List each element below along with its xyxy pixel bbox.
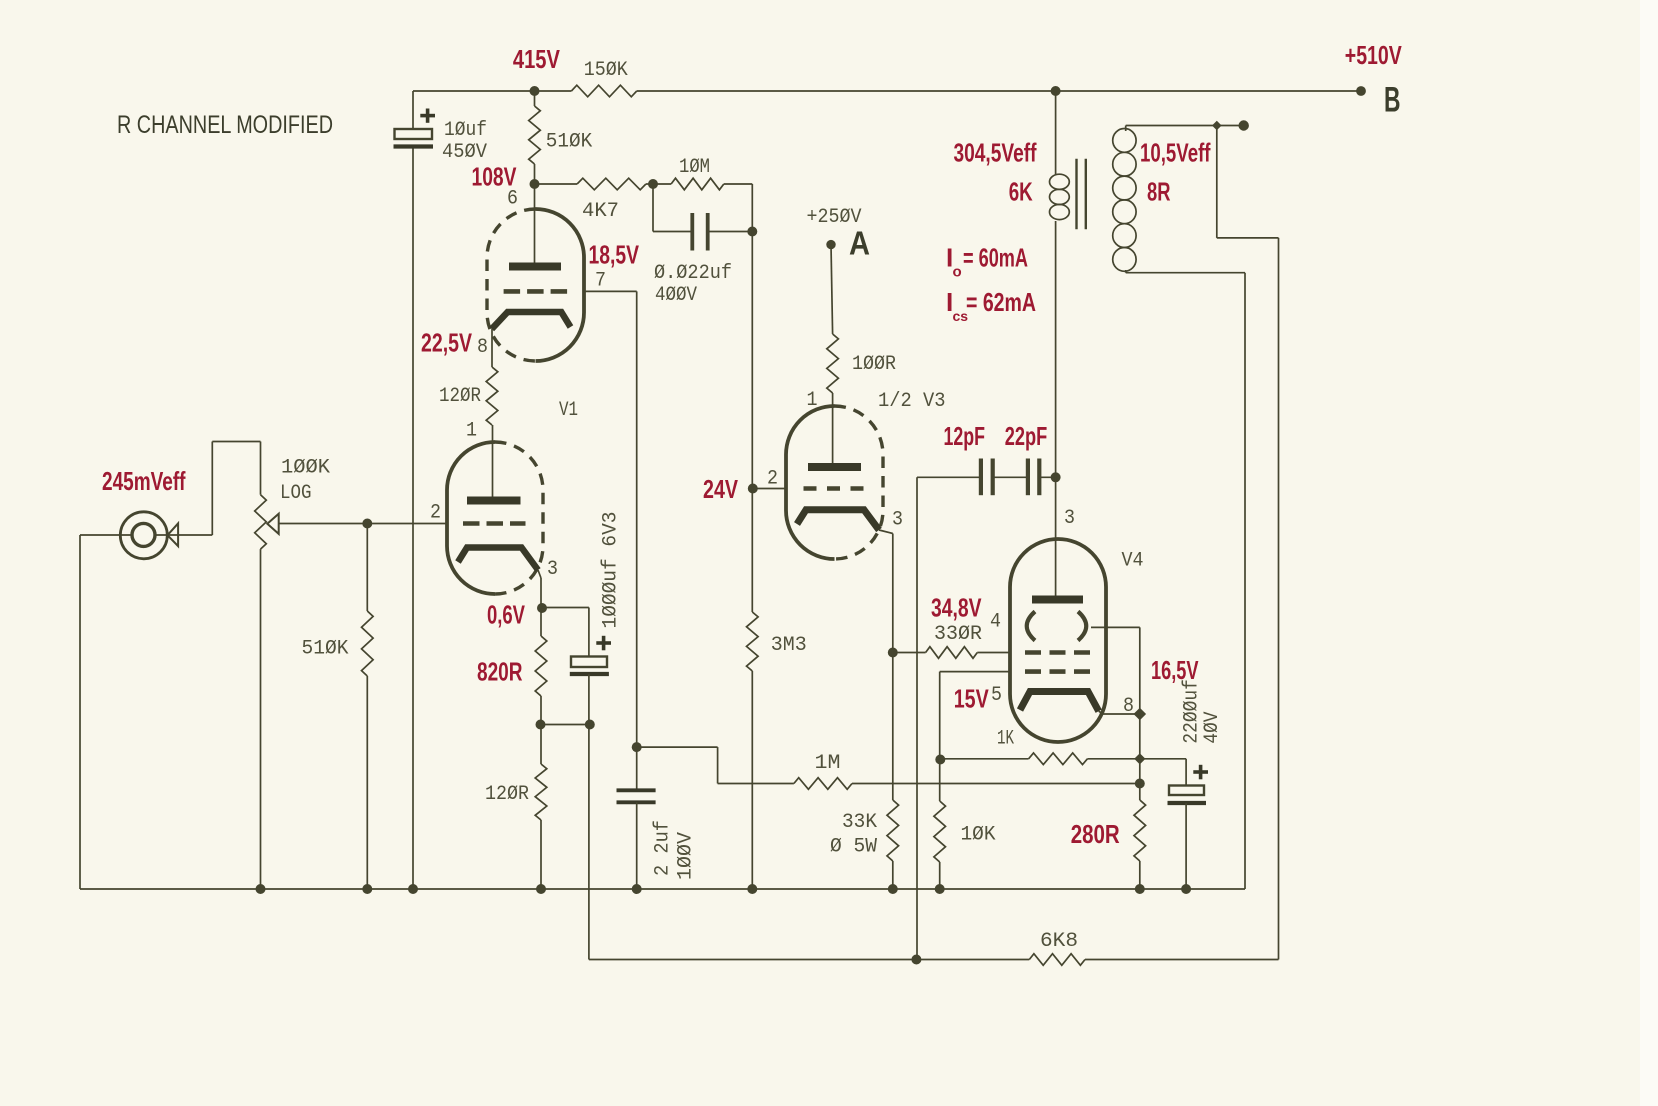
- svg-text:18,5V: 18,5V: [589, 239, 640, 269]
- svg-text:33K: 33K: [842, 811, 878, 834]
- svg-text:280R: 280R: [1071, 819, 1120, 849]
- svg-text:2: 2: [767, 468, 778, 491]
- resistor 10M: [653, 156, 752, 190]
- svg-text:4K7: 4K7: [582, 200, 619, 223]
- svg-text:8R: 8R: [1147, 177, 1171, 207]
- V4 cathode pin8: [1020, 692, 1140, 719]
- svg-text:= 60mA: = 60mA: [963, 243, 1028, 273]
- svg-text:0,6V: 0,6V: [487, 600, 525, 630]
- capacitor 0.022uf 400V: [653, 184, 752, 307]
- input jack 245mVeff: [80, 466, 212, 559]
- svg-text:1ØØR: 1ØØR: [852, 353, 896, 376]
- node cathode filter junction: [536, 720, 595, 730]
- node V3 cathode / 330R: [888, 648, 898, 658]
- wire secondary bottom return: [1126, 273, 1245, 889]
- V1a cathode pin8: [477, 312, 571, 359]
- resistor 510K (grid leak): [302, 524, 374, 890]
- node pot wiper: [362, 519, 372, 529]
- node A +250V: [807, 206, 871, 262]
- wire V3 cathode down: [879, 530, 893, 800]
- capacitor 12pF: [917, 421, 993, 495]
- svg-text:1ØØK: 1ØØK: [281, 457, 331, 480]
- capacitor 22pF: [993, 421, 1056, 495]
- label Io = 60mA: [946, 243, 1028, 281]
- svg-text:1: 1: [807, 389, 818, 412]
- svg-text:12ØR: 12ØR: [485, 783, 529, 806]
- triode 1/2 V3: [786, 390, 946, 559]
- V3 cathode pin3: [797, 509, 903, 532]
- svg-text:B: B: [1384, 81, 1401, 120]
- svg-text:LOG: LOG: [280, 482, 312, 505]
- resistor 33K 0.5W: [830, 800, 899, 889]
- svg-text:6K8: 6K8: [1040, 930, 1078, 953]
- node 415V: [513, 44, 560, 96]
- svg-text:V1: V1: [559, 399, 578, 422]
- wire secondary top tap: [1126, 120, 1279, 959]
- capacitor 2200uf 40V: [1140, 679, 1224, 889]
- svg-text:34,8V: 34,8V: [931, 593, 982, 623]
- svg-text:51ØK: 51ØK: [546, 131, 593, 154]
- svg-text:15ØK: 15ØK: [584, 59, 629, 82]
- wire V4 screen to cathode node: [1091, 627, 1199, 720]
- potentiometer 100K LOG: [255, 442, 447, 890]
- resistor 4K7: [535, 178, 654, 223]
- svg-text:Ø.Ø22uf: Ø.Ø22uf: [654, 262, 732, 285]
- svg-text:1ØØØuf 6V3: 1ØØØuf 6V3: [599, 512, 622, 629]
- svg-text:820R: 820R: [477, 657, 523, 687]
- resistor 1M (bootstrap): [637, 747, 1140, 789]
- V1b cathode pin3: [458, 548, 558, 582]
- node 4K7-10M: [648, 179, 658, 189]
- svg-text:Ø 5W: Ø 5W: [830, 836, 878, 859]
- svg-text:+510V: +510V: [1345, 40, 1402, 70]
- resistor 150K: [571, 59, 636, 97]
- svg-text:4ØV: 4ØV: [1201, 711, 1224, 744]
- svg-text:2 2uf: 2 2uf: [652, 820, 675, 876]
- wire to 6K8 feedback line: [589, 725, 1029, 960]
- capacitor 1000uf 6V3: [541, 512, 622, 725]
- pentode V4: [1010, 539, 1144, 742]
- resistor 3M3: [747, 489, 807, 890]
- svg-text:1K: 1K: [997, 728, 1014, 751]
- V1a grid pin7: [504, 270, 606, 293]
- svg-text:15V: 15V: [954, 684, 989, 714]
- svg-text:6: 6: [507, 188, 518, 211]
- svg-text:2: 2: [430, 502, 441, 525]
- resistor 820R: [477, 608, 547, 725]
- svg-text:3: 3: [1064, 507, 1075, 530]
- resistor 120R (lower): [485, 725, 547, 890]
- node grid V1a - 1M branch: [632, 742, 642, 752]
- svg-text:= 62mA: = 62mA: [966, 287, 1036, 317]
- resistor 330R: [893, 593, 1010, 659]
- node cap-10M right: [747, 184, 757, 488]
- svg-text:5: 5: [991, 684, 1002, 707]
- svg-text:A: A: [849, 225, 870, 262]
- svg-text:8: 8: [1123, 695, 1134, 718]
- svg-text:3: 3: [892, 509, 903, 532]
- V1b plate pin1: [466, 420, 521, 501]
- svg-text:1Øuf: 1Øuf: [444, 119, 487, 142]
- wire jack to pot: [212, 442, 260, 536]
- V1a plate: [509, 184, 561, 267]
- svg-text:12pF: 12pF: [944, 421, 986, 451]
- resistor 510K (plate load V1a): [529, 91, 593, 184]
- svg-text:8: 8: [477, 336, 488, 359]
- ground rail junctions: [256, 884, 1192, 894]
- wire left B+ drop: [412, 91, 414, 889]
- transformer secondary 8R 10,5Veff: [1113, 126, 1211, 273]
- svg-text:1ØM: 1ØM: [679, 156, 710, 179]
- V1b grid pin2: [430, 502, 526, 525]
- transformer core: [1077, 159, 1086, 230]
- svg-text:3M3: 3M3: [771, 634, 807, 657]
- svg-text:1: 1: [466, 420, 477, 443]
- svg-text:1M: 1M: [815, 752, 841, 775]
- node 22pF anode: [1051, 472, 1061, 482]
- resistor 120R (V1a cathode): [439, 329, 498, 425]
- svg-text:22,5V: 22,5V: [421, 328, 472, 358]
- svg-text:12ØR: 12ØR: [439, 385, 481, 408]
- resistor 6K8 feedback: [911, 930, 1278, 966]
- svg-text:1/2 V3: 1/2 V3: [878, 390, 946, 413]
- V4 grid3 pin5 15V: [940, 672, 1091, 759]
- svg-text:10,5Veff: 10,5Veff: [1140, 138, 1211, 168]
- wire 12pF left drop: [916, 477, 918, 959]
- svg-text:V4: V4: [1122, 550, 1144, 573]
- svg-text:304,5Veff: 304,5Veff: [954, 138, 1037, 168]
- label Ics = 62mA: [946, 287, 1036, 324]
- V3 plate pin1: [807, 389, 862, 467]
- capacitor 2.2uf 100V: [617, 790, 698, 889]
- svg-text:o: o: [953, 264, 962, 281]
- svg-text:4: 4: [990, 611, 1001, 634]
- transformer primary 6K 304,5Veff: [954, 86, 1070, 596]
- svg-text:7: 7: [595, 270, 606, 293]
- resistor 1K: [935, 728, 1145, 765]
- svg-text:R CHANNEL MODIFIED: R CHANNEL MODIFIED: [117, 111, 333, 139]
- V4 screen grid: [1027, 612, 1087, 641]
- node 0,6V cathode V1b: [487, 570, 547, 630]
- svg-text:1ØK: 1ØK: [961, 824, 997, 847]
- svg-text:415V: 415V: [513, 44, 560, 74]
- V4 control grid pin4: [990, 611, 1091, 653]
- resistor 100R: [827, 245, 896, 464]
- svg-text:3: 3: [547, 558, 558, 581]
- resistor 280R: [1071, 714, 1146, 889]
- svg-text:24V: 24V: [703, 474, 738, 504]
- wire grid V1a to 2.2uf: [584, 291, 637, 788]
- node 108V pin6: [472, 162, 540, 211]
- wire input ground drop: [79, 535, 81, 889]
- svg-text:4ØØV: 4ØØV: [655, 284, 698, 307]
- wire top rail 415V: [413, 90, 1361, 92]
- svg-text:1ØØV: 1ØØV: [675, 831, 698, 880]
- svg-text:6K: 6K: [1009, 177, 1033, 207]
- svg-text:51ØK: 51ØK: [302, 638, 350, 661]
- svg-text:245mVeff: 245mVeff: [102, 466, 186, 496]
- svg-text:22pF: 22pF: [1005, 421, 1047, 451]
- triode V1b (lower half V1): [447, 442, 543, 594]
- node B +510V: [1345, 40, 1402, 120]
- capacitor C 10uf 450V: [394, 109, 488, 165]
- wire bottom ground rail: [80, 888, 1245, 890]
- triode V1a (upper half V1): [487, 209, 584, 361]
- svg-text:33ØR: 33ØR: [934, 623, 982, 646]
- node 1M at V4 cathode: [1135, 779, 1145, 789]
- resistor 10K: [934, 759, 996, 889]
- V4 plate pin3: [1032, 507, 1083, 600]
- V3 grid pin2 24V: [703, 468, 864, 504]
